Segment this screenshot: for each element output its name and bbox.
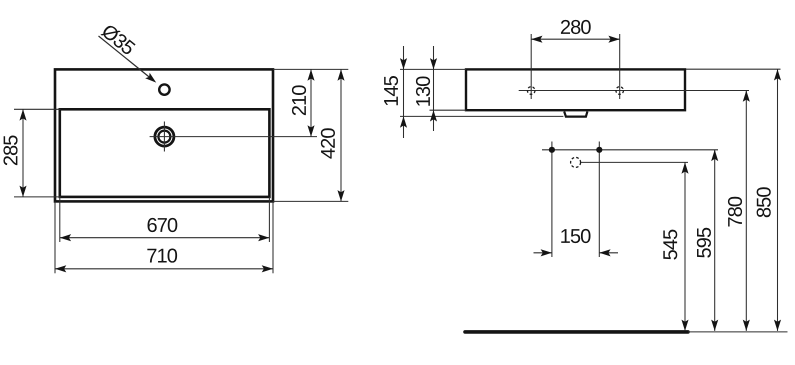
floor line thick <box>465 330 688 334</box>
850 top arrowhead <box>774 69 781 80</box>
545 bottom arrowhead <box>681 320 688 331</box>
145 bottom arrow tail <box>403 116 405 138</box>
850 top extension line <box>686 68 781 70</box>
545 top arrowhead <box>681 162 688 173</box>
O35 leader line <box>99 36 154 81</box>
285 bottom arrowhead <box>19 186 26 197</box>
label 595 <box>697 228 711 258</box>
label 210 <box>292 85 306 115</box>
label 130 <box>416 77 430 106</box>
waste outlet dashed circle <box>571 157 581 167</box>
washbasin outer outline (plan view) <box>55 69 273 201</box>
faucet hole 1 dashed circle <box>527 87 535 95</box>
150 left arrowhead (outside) <box>541 249 552 256</box>
label 420 <box>321 128 335 158</box>
supply point 2 extension line <box>598 150 600 257</box>
670 dimension line <box>60 237 270 239</box>
280 dimension line <box>531 38 620 40</box>
supply point 1 tick <box>551 142 553 150</box>
O35 leader arrowhead <box>145 73 158 86</box>
145 bottom arrowhead (outside) <box>400 116 407 127</box>
420 bottom extension line <box>273 200 348 202</box>
280 left arrowhead <box>531 36 542 43</box>
label 280 <box>561 20 591 34</box>
drain crosshair vertical <box>163 122 165 152</box>
label 150 <box>561 229 590 243</box>
150 dim line right segment <box>599 252 618 254</box>
670 left arrowhead <box>60 234 71 241</box>
210 bottom arrowhead <box>307 125 314 136</box>
670 left extension line <box>59 197 61 242</box>
210 dimension line <box>310 69 312 136</box>
supply line horizontal (595 ref) <box>542 149 718 151</box>
150 dim line left segment <box>534 252 552 254</box>
faucet centerline horizontal <box>519 90 749 92</box>
545 dimension line <box>684 162 686 331</box>
130 top arrowhead (outside) <box>430 58 437 69</box>
130 bottom extension line <box>430 109 467 111</box>
waste line horizontal (545 ref) <box>581 161 688 163</box>
145 top arrow tail <box>403 46 405 69</box>
label 670 <box>148 218 178 232</box>
label 710 <box>147 249 177 263</box>
210 top arrowhead <box>307 69 314 80</box>
420 top arrowhead <box>337 69 344 80</box>
780 top arrowhead <box>743 91 750 102</box>
150 right arrowhead (outside) <box>599 249 610 256</box>
label 285 <box>3 135 17 165</box>
top extension line right <box>273 68 348 70</box>
top extension line left of side view <box>400 68 466 70</box>
710 left arrowhead <box>55 265 66 272</box>
washbasin outline (side view) <box>466 69 685 110</box>
label 780 <box>728 197 742 227</box>
label O35 <box>100 23 136 56</box>
280 left extension line <box>530 34 532 99</box>
145 top arrowhead (outside) <box>400 58 407 69</box>
780 bottom arrowhead <box>743 320 750 331</box>
710 right extension line <box>272 201 274 273</box>
130 bottom arrowhead (outside) <box>430 110 437 121</box>
130 dimension line <box>433 69 435 110</box>
drain crosshair horizontal / 210 extension <box>150 136 317 138</box>
130 bottom arrow tail <box>433 110 435 131</box>
280 right extension line <box>619 34 621 99</box>
595 top arrowhead <box>711 150 718 161</box>
drain outlet trapezoid <box>564 112 587 117</box>
washbasin inner bowl outline (plan view) <box>60 109 270 197</box>
faucet hole 2 dashed circle <box>616 87 624 95</box>
595 bottom arrowhead <box>711 320 718 331</box>
285 bottom extension line <box>14 196 61 198</box>
670 right arrowhead <box>258 234 269 241</box>
drain inner circle <box>158 131 170 143</box>
285 dimension line <box>22 109 24 197</box>
420 dimension line <box>340 69 342 201</box>
145 dimension line <box>403 69 405 116</box>
label 545 <box>663 230 677 260</box>
850 bottom arrowhead <box>774 320 781 331</box>
710 right arrowhead <box>262 265 273 272</box>
floor line thin extension <box>688 331 788 333</box>
710 left extension line <box>54 201 56 273</box>
drain outer circle <box>155 127 174 146</box>
285 top extension line <box>14 108 61 110</box>
280 right arrowhead <box>608 36 619 43</box>
faucet hole (O35) <box>159 84 169 94</box>
supply point 2 dot <box>596 147 602 153</box>
710 dimension line <box>55 268 273 270</box>
670 right extension line <box>268 197 270 242</box>
supply point 1 extension line <box>551 150 553 257</box>
label 850 <box>757 187 771 217</box>
420 bottom arrowhead <box>337 190 344 201</box>
label 145 <box>384 76 398 105</box>
780 dimension line <box>745 91 747 331</box>
supply point 1 dot <box>549 147 555 153</box>
595 dimension line <box>714 150 716 331</box>
wall fixing line (145 ref) <box>400 115 563 117</box>
850 dimension line <box>777 69 779 331</box>
285 top arrowhead <box>19 109 26 120</box>
supply point 2 tick <box>598 142 600 150</box>
130 top arrow tail <box>433 46 435 69</box>
